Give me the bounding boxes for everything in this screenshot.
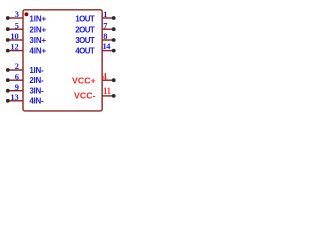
junction dot pin 13 (6, 99, 10, 103)
svg-text:14: 14 (103, 42, 112, 51)
junction dot pin 6 (6, 78, 10, 82)
svg-text:1IN-: 1IN- (29, 66, 44, 75)
wire pin 14 (102, 50, 114, 52)
wire pin 9 (8, 90, 23, 92)
svg-text:4: 4 (103, 71, 108, 82)
junction dot pin 12 (6, 49, 10, 53)
wire pin 11 (102, 95, 114, 97)
junction dot pin 1 (112, 16, 116, 20)
svg-text:2IN+: 2IN+ (29, 26, 46, 35)
junction dot pin 5 (6, 27, 10, 31)
junction dot pin 4 (112, 78, 116, 82)
svg-text:2IN-: 2IN- (29, 76, 44, 85)
svg-text:11: 11 (103, 85, 110, 96)
wire pin 4 (102, 79, 114, 81)
svg-text:4IN+: 4IN+ (29, 47, 46, 56)
wire pin 1 (102, 17, 114, 19)
svg-text:2OUT: 2OUT (75, 26, 95, 35)
op-amp U1 body (LM324 quad op-amp rectangle) (23, 10, 102, 111)
svg-text:6: 6 (15, 72, 19, 81)
wire pin 6 (8, 79, 23, 81)
junction dot pin 2 (6, 68, 10, 72)
pin 1 marker dot (24, 12, 28, 16)
svg-text:3IN-: 3IN- (29, 86, 44, 95)
wire pin 12 (8, 50, 23, 52)
svg-text:12: 12 (10, 43, 18, 52)
svg-text:3IN+: 3IN+ (29, 36, 46, 45)
wire pin 7 (102, 28, 114, 30)
wire pin 13 (8, 100, 23, 102)
svg-text:2: 2 (15, 62, 19, 71)
svg-text:1IN+: 1IN+ (29, 15, 46, 24)
svg-text:10: 10 (10, 32, 18, 41)
svg-text:VCC+: VCC+ (72, 76, 96, 86)
wire pin 2 (8, 69, 23, 71)
svg-text:9: 9 (15, 83, 19, 92)
wire pin 8 (102, 39, 114, 41)
svg-text:3: 3 (15, 10, 19, 19)
svg-text:8: 8 (103, 32, 107, 41)
wire pin 5 (8, 28, 23, 30)
svg-text:1: 1 (103, 10, 107, 19)
junction dot pin 11 (112, 94, 116, 98)
junction dot pin 3 (6, 16, 10, 20)
svg-text:4IN-: 4IN- (29, 96, 44, 105)
wire pin 10 (8, 39, 23, 41)
junction dot pin 8 (112, 38, 116, 42)
svg-text:3OUT: 3OUT (75, 36, 95, 45)
svg-text:VCC-: VCC- (74, 91, 96, 101)
wire pin 3 (8, 17, 23, 19)
svg-text:5: 5 (15, 21, 19, 30)
junction dot pin 9 (6, 89, 10, 93)
junction dot pin 10 (6, 38, 10, 42)
svg-text:1OUT: 1OUT (75, 15, 95, 24)
svg-text:7: 7 (103, 21, 107, 30)
junction dot pin 7 (112, 27, 116, 31)
junction dot pin 14 (112, 49, 116, 53)
svg-text:13: 13 (10, 93, 18, 102)
svg-text:4OUT: 4OUT (75, 47, 95, 56)
